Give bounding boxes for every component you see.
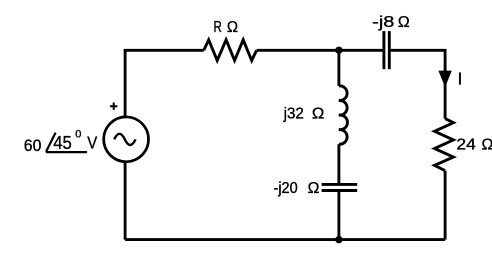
svg-text:60: 60 [24,136,42,155]
angle symbol slash [46,133,56,152]
wire from bottom-left corner up to source bottom [124,162,127,239]
bottom wire [125,238,445,241]
svg-text:R: R [214,19,222,36]
ac source sine wave [114,134,135,145]
capacitor -j20 top plate [322,183,358,186]
svg-text:V: V [87,133,97,153]
node A top junction dot [335,47,342,54]
svg-text:Ω: Ω [227,19,238,36]
capacitor -j8 right plate [388,31,391,69]
capacitor -j8 left plate [382,31,385,69]
wire middle branch from top node to inductor [337,50,340,86]
wire from source top to resistor R [125,50,204,117]
wire right side lower [444,171,447,240]
svg-text:Ω: Ω [308,180,320,197]
node B bottom junction dot [335,236,342,243]
svg-text:24: 24 [456,136,476,153]
capacitor -j20 bottom plate [322,189,358,192]
svg-text:j32: j32 [283,106,304,123]
current arrow I [438,71,451,88]
ac source circle V1 [104,117,149,162]
svg-text:I: I [458,69,463,89]
resistor 24 zigzag [435,119,454,171]
wire from capacitor -j20 to bottom node [337,192,340,240]
wire from resistor R to capacitor -j8 left plate [257,49,383,52]
wire from capacitor -j8 to top-right corner down to resistor 24 [391,50,446,118]
svg-text:Ω: Ω [482,136,492,153]
svg-text:-j8: -j8 [372,14,394,31]
svg-text:Ω: Ω [398,14,410,31]
svg-text:0: 0 [75,129,81,141]
svg-text:Ω: Ω [312,106,324,123]
polarity plus sign [110,103,117,110]
resistor R zigzag [204,40,257,61]
angle symbol underline [46,151,87,153]
inductor j32 coil [339,86,348,144]
wire from inductor to capacitor -j20 [337,144,340,183]
svg-text:45: 45 [53,132,72,153]
svg-text:-j20: -j20 [274,180,298,197]
